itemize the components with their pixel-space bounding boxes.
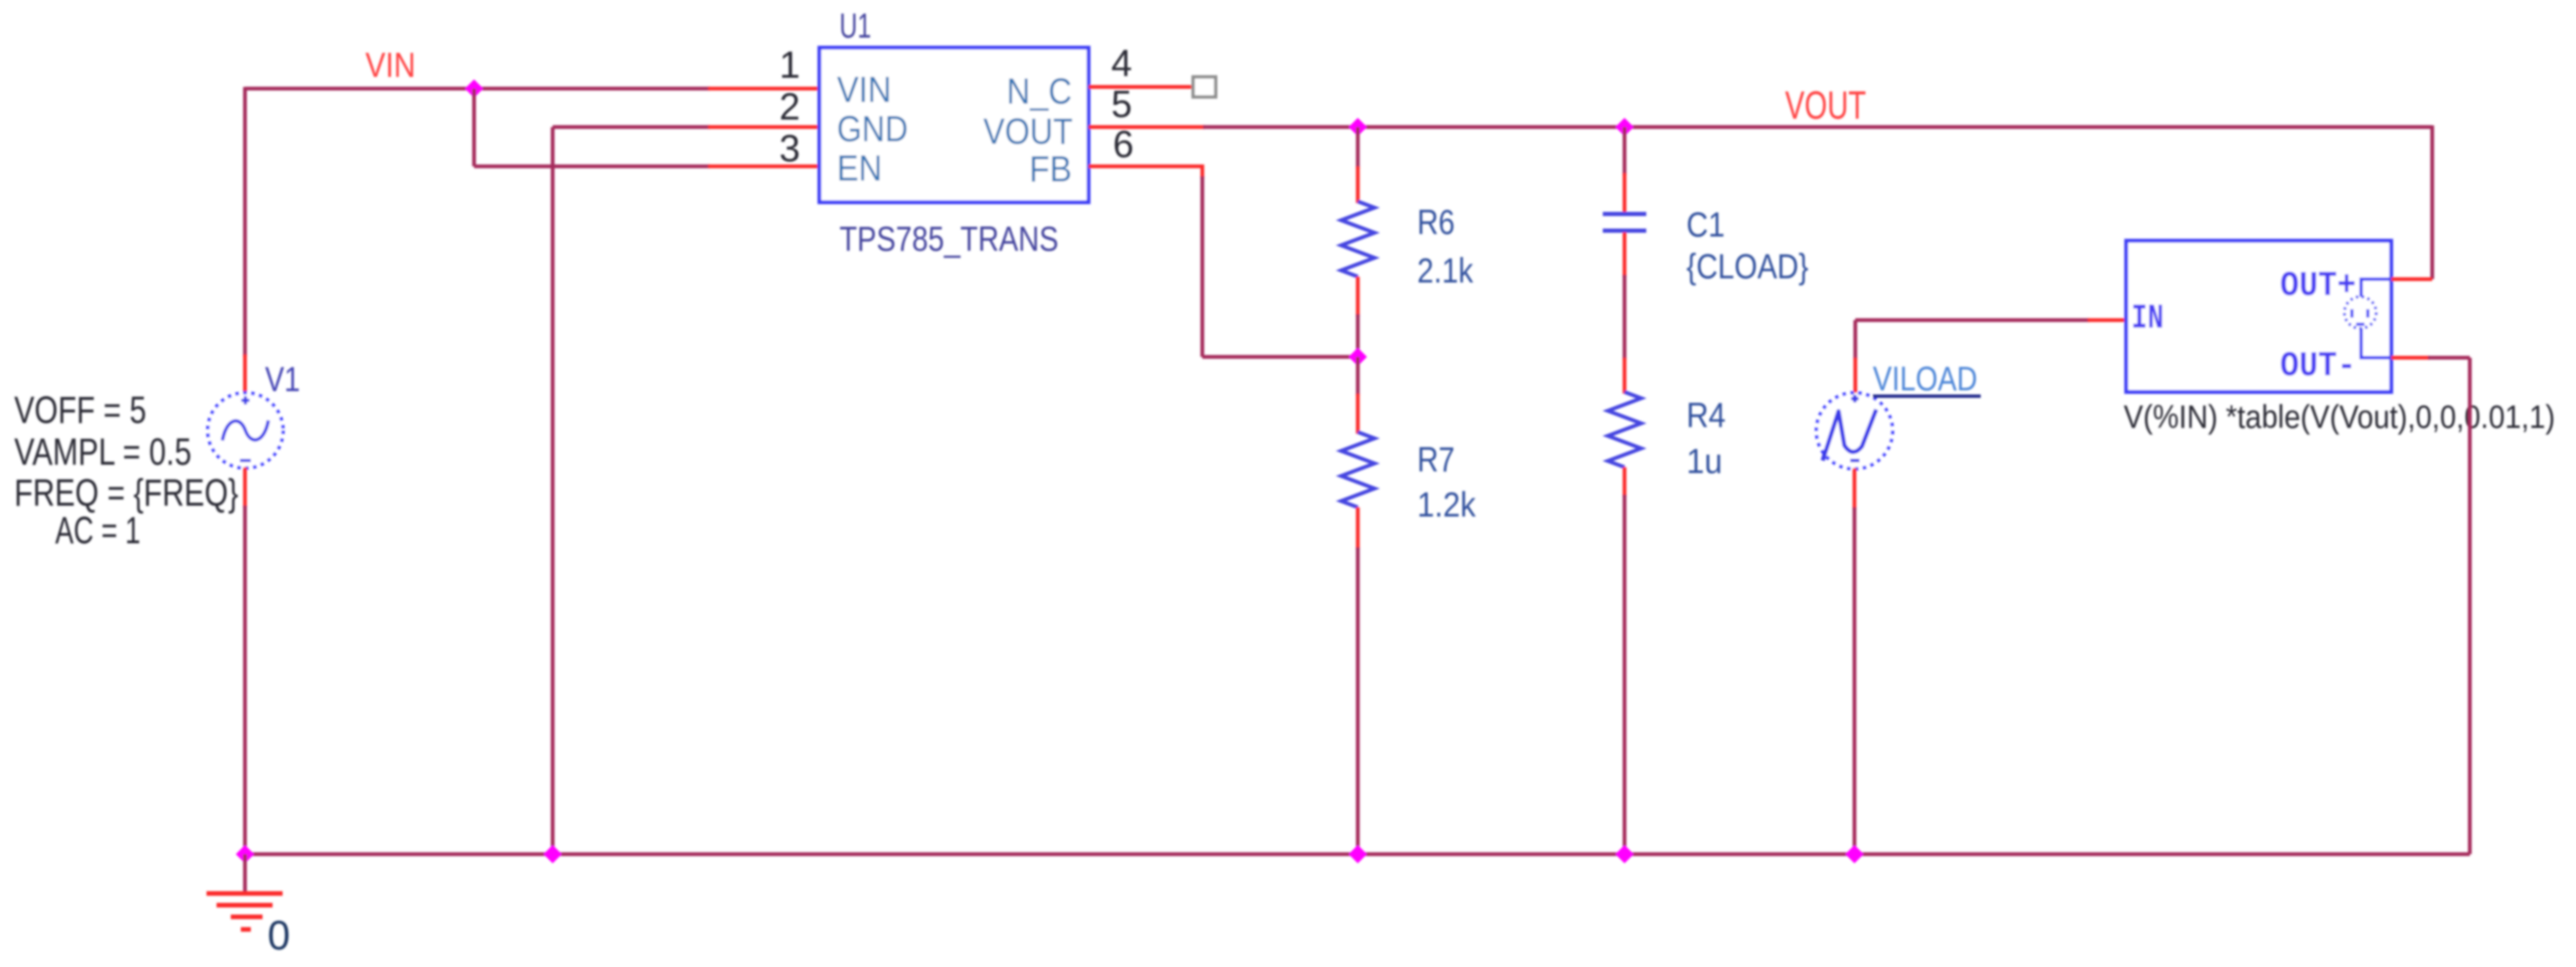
wire OUT- vertical down to bus — [2468, 358, 2472, 854]
wire VIN horizontal from V1 corner to junction — [245, 87, 474, 91]
node bus junction VILOAD — [1845, 845, 1864, 863]
wire GND branch vertical down to bus — [551, 127, 555, 854]
wire OUT- red stub — [2391, 356, 2430, 360]
wire pin 4 N_C red stub — [1089, 85, 1193, 89]
wire R7 bottom maroon to bus — [1356, 547, 1360, 854]
svg-text:R6: R6 — [1417, 202, 1455, 242]
no-connect square — [1193, 77, 1216, 97]
node VOUT junction at C1 — [1615, 118, 1634, 136]
node VIN junction — [465, 79, 483, 98]
wire VILOAD horizontal to IN — [1855, 318, 2089, 323]
regulator U1 box — [819, 48, 1089, 202]
wire VILOAD top red lead — [1854, 358, 1858, 394]
wire R7 top red lead — [1356, 394, 1360, 434]
wire VILOAD top corner — [1854, 320, 1858, 359]
svg-text:R4: R4 — [1686, 395, 1726, 435]
wire R4 bottom maroon to bus — [1623, 495, 1627, 854]
wire R6 top red lead — [1356, 166, 1360, 203]
wire pin 5 VOUT red stub — [1089, 125, 1205, 130]
svg-text:V(%IN) *table(V(Vout),0,0,0.01: V(%IN) *table(V(Vout),0,0,0.01,1) — [2124, 400, 2555, 435]
svg-text:AC = 1: AC = 1 — [55, 509, 140, 552]
node bus junction V1 — [236, 845, 254, 863]
wire R6 bottom red lead — [1356, 277, 1360, 316]
ground stub — [243, 854, 247, 893]
wire C1 top maroon — [1623, 127, 1627, 175]
wire FB vertical down — [1201, 176, 1205, 357]
wire VILOAD bottom red lead — [1853, 468, 1857, 509]
svg-text:2.1k: 2.1k — [1417, 251, 1474, 290]
wire V1 vertical upper — [243, 87, 247, 356]
capacitor C1 — [1603, 214, 1646, 231]
ABM block box — [2126, 241, 2391, 392]
wire pin 3 EN red stub — [708, 165, 821, 169]
svg-text:VIN: VIN — [365, 45, 416, 84]
wire R4 bottom red lead — [1623, 467, 1627, 496]
voltage source V1 — [208, 393, 283, 468]
wire V1 bottom vertical to bus — [243, 506, 247, 854]
svg-text:IN: IN — [2131, 298, 2164, 338]
ground symbol — [207, 893, 283, 929]
svg-text:3: 3 — [779, 127, 800, 170]
svg-text:OUT+: OUT+ — [2280, 266, 2356, 306]
wire ground bus — [245, 852, 2470, 857]
svg-text:VOUT: VOUT — [983, 111, 1073, 152]
svg-text:1.2k: 1.2k — [1417, 485, 1477, 524]
svg-text:VOFF = 5: VOFF = 5 — [14, 389, 146, 431]
svg-text:FB: FB — [1029, 149, 1072, 190]
svg-text:5: 5 — [1111, 83, 1132, 125]
svg-text:4: 4 — [1111, 42, 1132, 84]
wire VOUT bus — [1203, 125, 2432, 130]
ABM internal source bubble — [2344, 297, 2376, 328]
node FB divider junction — [1349, 348, 1367, 366]
svg-text:VIN: VIN — [837, 69, 891, 110]
node bus junction R7 — [1349, 845, 1367, 863]
svg-text:VAMPL = 0.5: VAMPL = 0.5 — [14, 430, 191, 473]
wire R7 bottom red lead — [1356, 507, 1360, 549]
wire V1 top red lead — [243, 354, 247, 394]
wire FB horizontal to divider junction — [1202, 355, 1358, 359]
svg-text:GND: GND — [837, 109, 908, 150]
wire C1 top red lead — [1623, 173, 1627, 212]
node bus junction GND wire — [543, 845, 562, 863]
wire R6 top maroon — [1356, 127, 1360, 168]
svg-text:2: 2 — [779, 85, 800, 128]
svg-text:VOUT: VOUT — [1785, 83, 1866, 127]
svg-text:0: 0 — [268, 914, 290, 959]
svg-text:N_C: N_C — [1007, 71, 1072, 112]
resistor R4 — [1608, 392, 1641, 467]
wire VIN junction to pin stub — [474, 87, 710, 91]
svg-text:R7: R7 — [1417, 440, 1455, 479]
svg-text:OUT-: OUT- — [2280, 346, 2356, 386]
svg-text:TPS785_TRANS: TPS785_TRANS — [839, 219, 1058, 258]
wire IN red stub — [2088, 318, 2128, 323]
svg-text:6: 6 — [1113, 123, 1134, 165]
wire R6 bottom maroon — [1356, 314, 1360, 357]
svg-text:EN: EN — [837, 148, 882, 189]
node bus junction R4 — [1615, 845, 1634, 863]
svg-text:U1: U1 — [839, 6, 871, 45]
wire C1 to R4 maroon — [1623, 275, 1627, 359]
svg-text:{CLOAD}: {CLOAD} — [1686, 247, 1808, 286]
svg-text:1u: 1u — [1686, 441, 1722, 481]
wire pin 6 FB red stub — [1089, 166, 1202, 178]
wire OUT- maroon to corner — [2428, 356, 2470, 360]
wire OUT+ red stub — [2391, 277, 2432, 282]
wire GND branch horizontal — [553, 125, 710, 130]
svg-text:FREQ = {FREQ}: FREQ = {FREQ} — [14, 471, 238, 514]
wire EN branch horizontal — [474, 165, 710, 169]
wire pin 2 GND red stub — [708, 125, 821, 130]
wire VILOAD bottom maroon to bus — [1853, 507, 1857, 854]
wire V1 bottom red lead — [243, 467, 247, 507]
wire EN branch vertical — [472, 89, 477, 166]
wire C1 bottom red lead — [1623, 232, 1627, 277]
source VILOAD — [1817, 393, 1893, 469]
ABM internal source bracket — [2361, 279, 2391, 358]
wire R4 top red lead — [1623, 358, 1627, 394]
svg-text:VILOAD: VILOAD — [1873, 359, 1977, 398]
wire pin 1 VIN red stub — [708, 87, 821, 91]
svg-text:1: 1 — [779, 43, 800, 86]
svg-text:C1: C1 — [1686, 205, 1725, 244]
svg-text:V1: V1 — [265, 359, 300, 399]
resistor R7 — [1341, 432, 1375, 507]
wire VOUT right vertical down to OUT+ — [2431, 125, 2435, 279]
resistor R6 — [1341, 201, 1375, 277]
node VOUT junction at R6 — [1349, 118, 1367, 136]
wire R7 top maroon — [1356, 357, 1360, 395]
